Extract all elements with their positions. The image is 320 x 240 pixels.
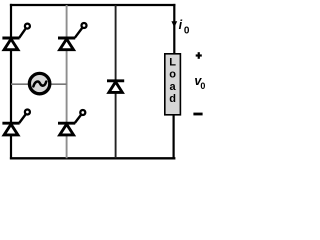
wire right rail bottom (load to bottom bus) — [173, 115, 175, 160]
load box — [165, 54, 181, 115]
label plus — [196, 52, 202, 59]
wire AC source horizontal — [11, 83, 67, 85]
svg-text:a: a — [170, 81, 177, 93]
svg-text:0: 0 — [200, 81, 205, 91]
freewheeling diode Dm — [107, 81, 124, 93]
wire right rail top (to load) — [173, 4, 175, 55]
AC source Vs — [29, 73, 49, 93]
thyristor T1 — [2, 24, 30, 50]
wire left rail (leg 1) — [10, 4, 12, 160]
svg-text:o: o — [169, 69, 176, 81]
arrow i0 on right rail — [171, 21, 177, 27]
label minus — [193, 113, 202, 116]
wire top DC bus — [10, 4, 176, 6]
svg-text:i: i — [179, 18, 183, 32]
svg-text:0: 0 — [184, 26, 190, 37]
wire bottom DC bus — [10, 157, 176, 159]
wire leg 2 rail — [66, 5, 68, 158]
thyristor T3 — [2, 110, 30, 135]
svg-text:d: d — [169, 93, 176, 105]
svg-text:L: L — [169, 56, 176, 68]
label v0 — [194, 74, 205, 91]
label i0 — [179, 18, 190, 37]
thyristor T2 — [58, 23, 87, 50]
wire freewheeling diode rail — [115, 5, 117, 158]
thyristor T4 — [58, 110, 85, 135]
